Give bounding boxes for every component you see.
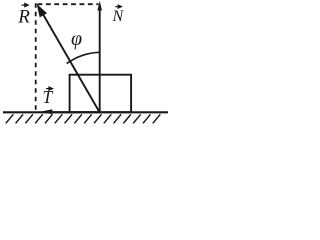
svg-text:R: R — [17, 6, 30, 27]
svg-text:T: T — [43, 87, 54, 107]
svg-text:φ: φ — [71, 28, 82, 50]
svg-text:N: N — [112, 8, 125, 25]
